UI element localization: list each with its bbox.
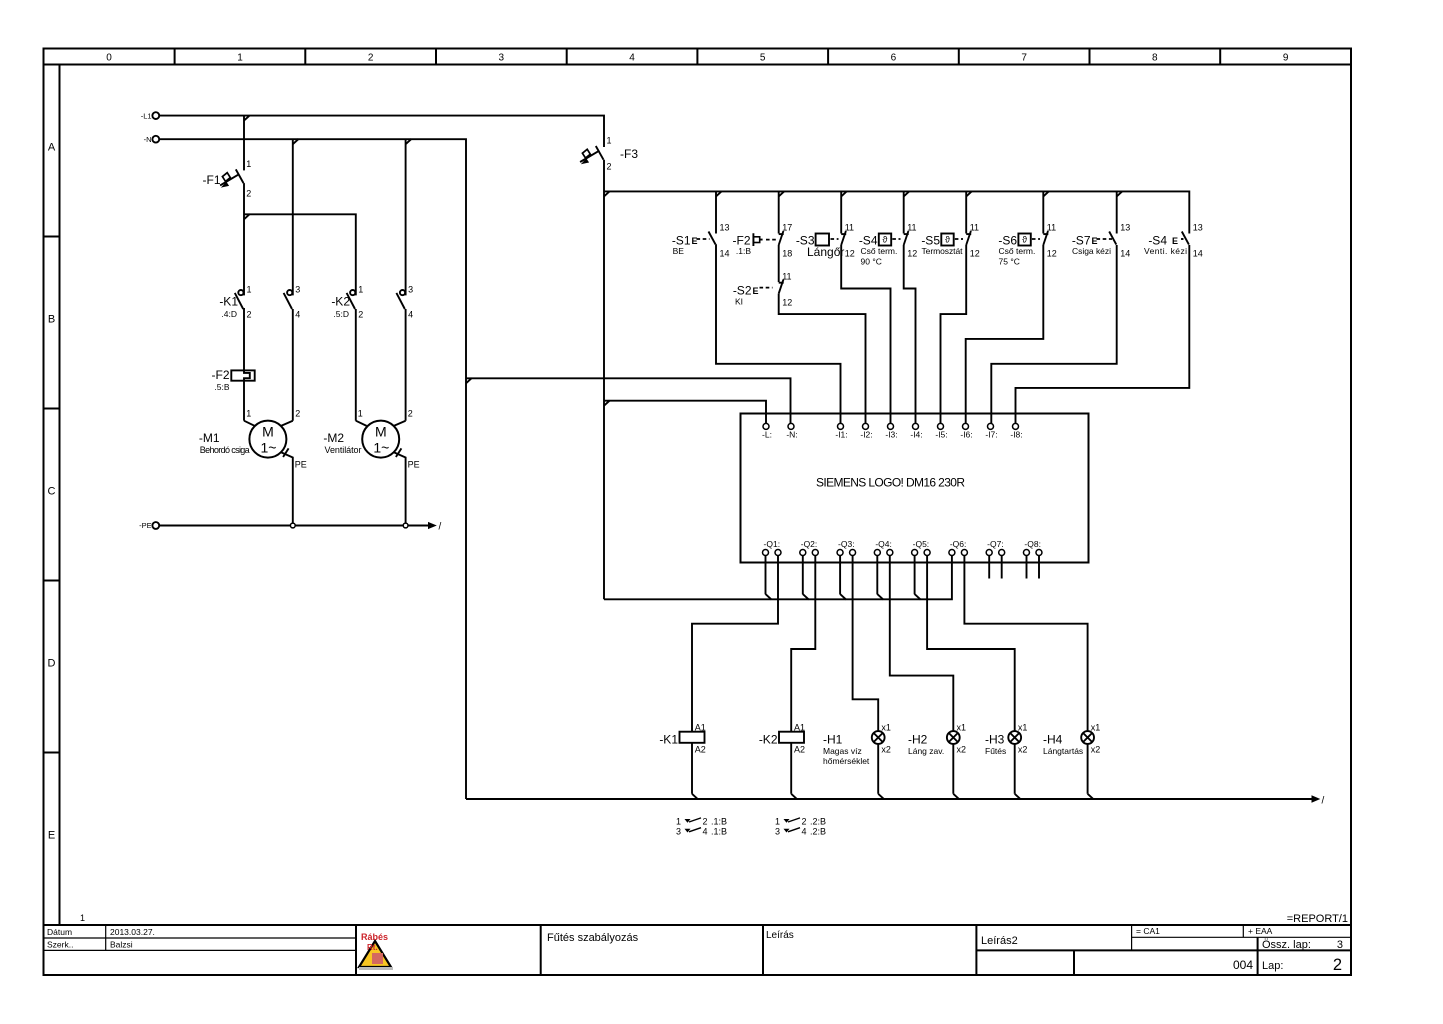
wire Q1 to K1 coil [692,563,778,732]
svg-text:= CA1: = CA1 [1136,926,1160,936]
svg-text:-I6:: -I6: [960,430,972,440]
wire Q5 to H3 [927,563,1015,732]
manual switch S7 (Csiga kezi) [1072,223,1130,259]
thermostat switch S5 (Termosztat) [921,223,979,259]
svg-text:.5:D: .5:D [333,309,349,319]
svg-text:Láng zav.: Láng zav. [908,746,944,756]
svg-text:14: 14 [720,249,730,259]
svg-text:Leírás2: Leírás2 [981,935,1018,947]
wire N bus [159,139,466,799]
wire Q3 to H1 [853,563,879,732]
title block [44,925,1352,975]
svg-text:Lángtartás: Lángtartás [1043,746,1083,756]
svg-text:14: 14 [1120,249,1130,259]
svg-text:4: 4 [408,310,413,320]
wire K2 pole2 down [405,309,407,421]
svg-text:11: 11 [1047,223,1056,233]
svg-text:-K2: -K2 [331,295,350,309]
svg-text:2: 2 [408,409,413,419]
wire branch to K2 [244,214,356,295]
contactor contact K1 pole 3-4 [284,139,301,319]
svg-text:1: 1 [676,817,681,827]
wire S4 to I4 [904,245,916,423]
svg-text:D: D [48,658,56,670]
svg-text:-Q2:: -Q2: [801,539,818,549]
svg-text:-I4:: -I4: [910,430,922,440]
K1 contact cross-reference [676,817,727,837]
svg-text:9: 9 [1283,53,1289,64]
thermal overload F2 [212,368,255,392]
wire S3 to I3 [841,245,890,423]
svg-text:A2: A2 [794,745,805,755]
svg-text:Fűtés: Fűtés [985,746,1006,756]
svg-text:-K1: -K1 [219,295,238,309]
svg-text:12: 12 [970,249,980,259]
svg-text:5: 5 [760,53,766,64]
svg-text:1: 1 [246,409,251,419]
wire K1 pole1 to F2 [242,309,245,370]
svg-text:x1: x1 [957,723,967,733]
svg-text:6: 6 [891,53,897,64]
svg-text:x2: x2 [957,745,967,755]
svg-text:Rt.: Rt. [367,943,378,952]
sheet reference =REPORT/1 [80,913,1348,925]
wire Q2 to K2 coil [791,563,815,732]
svg-text:E: E [1092,236,1098,246]
svg-text:-I5:: -I5: [935,430,947,440]
indicator lamp H1 [823,723,891,794]
svg-text:13: 13 [1120,223,1130,233]
svg-text:.1:B: .1:B [736,246,751,256]
svg-text:-F1: -F1 [203,173,221,187]
svg-text:-Q3:: -Q3: [838,539,855,549]
svg-text:2: 2 [368,53,374,64]
wire Q feed bus [604,563,952,600]
svg-text:11: 11 [970,223,979,233]
svg-text:A: A [48,142,56,154]
svg-text:Cső term.: Cső term. [999,246,1036,256]
PE junction node M2 [403,523,408,528]
svg-text:1: 1 [607,136,612,146]
wire S5 to I5 [941,245,967,423]
thermostat switch S4 (Cso term. 90C) [859,223,917,267]
M1 PE lead [281,448,307,523]
svg-text:17: 17 [782,223,792,233]
contactor contact K2 pole 1-2 [331,285,363,320]
K2 contact cross-reference [775,817,826,837]
svg-text:1: 1 [80,913,85,923]
breaker F3 [580,136,638,172]
wire S6 to I6 [966,245,1044,423]
svg-text:2: 2 [246,189,251,199]
svg-text:3: 3 [295,285,300,295]
svg-text:-M2: -M2 [323,431,344,445]
svg-text:Behordó csiga: Behordó csiga [200,445,250,455]
svg-text:12: 12 [907,249,917,259]
svg-text:-H2: -H2 [908,733,928,747]
svg-text:-K2: -K2 [759,733,778,747]
svg-text:Cső term.: Cső term. [861,246,898,256]
svg-text:.2:B: .2:B [810,826,826,836]
svg-text:-F3: -F3 [620,147,638,161]
svg-text:11: 11 [907,223,916,233]
svg-text:ϑ: ϑ [1022,235,1027,245]
svg-text:.2:B: .2:B [810,817,826,827]
pushbutton S2 (KI) [733,272,792,308]
svg-text:-L1: -L1 [141,111,152,120]
indicator lamp H3 [985,723,1027,794]
M2 PE lead [394,448,420,523]
svg-text:Termosztát: Termosztát [922,246,964,256]
svg-text:E: E [692,236,698,246]
relay coil K2 [759,723,805,794]
svg-text:2: 2 [358,310,363,320]
svg-text:14: 14 [1193,249,1203,259]
svg-text:13: 13 [1193,223,1203,233]
svg-text:4: 4 [802,826,807,836]
wire S2 to I2 [779,294,866,424]
svg-text:Balzsi: Balzsi [110,940,133,950]
svg-text:-M1: -M1 [199,431,220,445]
svg-text:12: 12 [782,298,792,308]
svg-text:A1: A1 [695,723,706,733]
svg-text:3: 3 [499,53,505,64]
svg-text:3: 3 [408,285,413,295]
svg-text:2: 2 [802,817,807,827]
wire PE bus [159,522,442,533]
svg-text:2: 2 [247,310,252,320]
svg-text:x2: x2 [1018,745,1028,755]
svg-text:.5:B: .5:B [214,382,229,392]
svg-text:4: 4 [703,826,708,836]
svg-text:BE: BE [673,246,685,256]
svg-text:-Q7:: -Q7: [987,539,1004,549]
wire Q4 to H2 [890,563,954,732]
svg-text:75 °C: 75 °C [999,257,1020,267]
wire F2 to S2 [778,245,780,282]
svg-text:.1:B: .1:B [711,826,727,836]
svg-text:0: 0 [106,53,112,64]
svg-text:E: E [753,286,759,296]
svg-text:004: 004 [1233,958,1253,972]
wire S7 to I7 [991,245,1116,423]
svg-text:-Q8:: -Q8: [1024,539,1041,549]
wire L1 bus [159,115,604,599]
svg-text:12: 12 [1047,249,1057,259]
svg-text:Venti. kézi: Venti. kézi [1144,246,1187,256]
svg-text:11: 11 [845,223,854,233]
manual switch S4b (Venti. kezi) [1144,223,1203,259]
svg-text:E: E [1172,236,1178,246]
svg-text:1: 1 [237,53,243,64]
svg-text:B: B [48,314,55,326]
PLC U1 SIEMENS LOGO! DM16 230R [741,414,1089,563]
wire Q6 to H4 [964,563,1087,732]
svg-text:x1: x1 [1091,723,1101,733]
wire F2 to M1 [243,381,245,421]
terminal -PE [139,521,159,530]
svg-text:Magas víz: Magas víz [823,746,862,756]
svg-text:KI: KI [735,297,743,307]
indicator lamp H4 [1043,723,1100,794]
svg-text:2: 2 [295,409,300,419]
svg-text:Lángőr: Lángőr [807,245,844,259]
svg-text:4: 4 [629,53,635,64]
svg-text:Leírás: Leírás [766,930,794,941]
svg-text:SIEMENS LOGO! DM16 230R: SIEMENS LOGO! DM16 230R [816,476,965,490]
svg-text:3: 3 [1337,939,1343,951]
overload contact F2 (17-18) [733,223,793,259]
svg-text:4: 4 [295,310,300,320]
svg-text:13: 13 [720,223,730,233]
svg-text:11: 11 [782,272,791,282]
svg-text:/: / [439,522,442,533]
svg-text:x1: x1 [1018,723,1028,733]
svg-text:Lap:: Lap: [1262,960,1283,972]
svg-text:M: M [375,424,387,440]
svg-text:Csiga kézi: Csiga kézi [1072,246,1111,256]
svg-text:.1:B: .1:B [711,817,727,827]
svg-text:1~: 1~ [261,440,277,456]
svg-text:-S2: -S2 [733,284,752,298]
svg-text:2013.03.27.: 2013.03.27. [110,927,155,937]
svg-text:=REPORT/1: =REPORT/1 [1287,913,1348,925]
svg-text:x2: x2 [1091,745,1101,755]
wire lamp return bus [466,794,1325,807]
svg-text:-H1: -H1 [823,733,843,747]
svg-text:hőmérséklet: hőmérséklet [823,756,870,766]
svg-text:-H4: -H4 [1043,733,1063,747]
motor M1 [199,409,300,458]
svg-text:ϑ: ϑ [883,235,888,245]
svg-text:1: 1 [247,285,252,295]
svg-text:2: 2 [1333,956,1342,974]
svg-text:C: C [48,486,56,498]
svg-text:2: 2 [703,817,708,827]
svg-text:E: E [48,830,55,842]
flame guard switch S3 (Langor) [796,223,855,260]
contactor contact K2 pole 3-4 [396,139,413,319]
wire S4b to I8 [1016,245,1190,423]
company logo [359,932,393,970]
wire K1 pole2 down [292,309,294,421]
svg-text:-Q4:: -Q4: [875,539,892,549]
svg-text:-Q1:: -Q1: [764,539,781,549]
svg-text:A2: A2 [695,745,706,755]
svg-text:/: / [1322,796,1325,807]
svg-text:Össz. lap:: Össz. lap: [1262,939,1311,951]
svg-text:Dátum: Dátum [47,927,72,937]
wire L to PLC L terminal [604,401,766,424]
svg-text:1: 1 [246,159,251,169]
svg-text:.4:D: .4:D [221,309,237,319]
svg-text:-F2: -F2 [212,368,230,382]
svg-text:-I7:: -I7: [985,430,997,440]
svg-text:2: 2 [607,162,612,172]
svg-text:Fűtés szabályozás: Fűtés szabályozás [547,932,639,944]
svg-text:A1: A1 [794,723,805,733]
relay coil K1 [659,723,706,794]
svg-text:90 °C: 90 °C [861,257,882,267]
svg-text:-I2:: -I2: [860,430,872,440]
svg-text:3: 3 [676,826,681,836]
Q7 Q8 stubs [989,563,1039,579]
svg-text:x1: x1 [881,723,891,733]
indicator lamp H2 [908,723,966,794]
svg-text:-L:: -L: [762,430,772,440]
terminal -L1 [141,111,159,120]
svg-text:8: 8 [1152,53,1158,64]
terminal -N [144,135,160,144]
svg-text:-I1:: -I1: [835,430,847,440]
svg-text:-I8:: -I8: [1010,430,1022,440]
wire control bus [604,191,1189,233]
svg-text:ϑ: ϑ [945,235,950,245]
svg-text:18: 18 [782,249,792,259]
svg-text:12: 12 [845,249,855,259]
svg-text:Szerk..: Szerk.. [47,940,73,950]
svg-text:x2: x2 [881,745,891,755]
svg-text:3: 3 [775,826,780,836]
wire S1 to I1 [716,245,841,424]
svg-text:-N: -N [144,135,152,144]
svg-text:7: 7 [1021,53,1027,64]
svg-text:-I3:: -I3: [885,430,897,440]
svg-text:1: 1 [358,285,363,295]
svg-text:Rábés: Rábés [361,932,388,942]
svg-text:-PE: -PE [139,521,152,530]
wire K2 pole1 down [355,309,357,421]
thermostat switch S6 (Cso term. 75C) [998,223,1056,267]
svg-text:PE: PE [295,460,307,470]
svg-text:-K1: -K1 [659,733,678,747]
svg-text:PE: PE [408,460,420,470]
svg-text:M: M [262,424,274,440]
svg-text:-N:: -N: [786,430,797,440]
contactor contact K1 pole 1-2 [219,285,251,320]
svg-text:Ventilátor: Ventilátor [325,445,362,455]
pushbutton S1 (BE) [672,223,730,259]
svg-text:1: 1 [775,817,780,827]
svg-text:+ EAA: + EAA [1248,926,1273,936]
breaker F1 [203,116,252,296]
PE junction node M1 [290,523,295,528]
svg-text:1: 1 [358,409,363,419]
wire N to PLC N terminal [466,378,791,423]
motor M2 [323,409,412,458]
svg-text:1~: 1~ [373,440,389,456]
svg-text:-Q5:: -Q5: [913,539,930,549]
svg-text:-H3: -H3 [985,733,1005,747]
svg-text:-Q6:: -Q6: [950,539,967,549]
